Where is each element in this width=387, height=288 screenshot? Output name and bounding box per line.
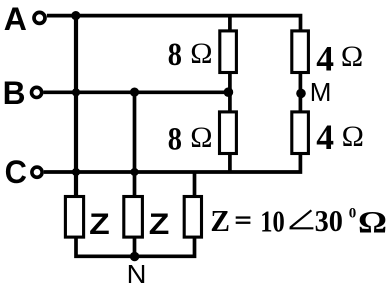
wire: phase A horizontal line with corner down to 4-ohm top bbox=[47, 16, 301, 30]
resistor R1: 8-ohm top box bbox=[220, 31, 237, 73]
wire: phase C horizontal line with corner up to 4-ohm bottom resistor R4 bbox=[44, 154, 301, 172]
svg-text:8: 8 bbox=[168, 37, 182, 73]
impedance Z1 box bbox=[65, 197, 83, 238]
equation: equals sign bottom bar bbox=[236, 222, 251, 224]
svg-text:B: B bbox=[3, 75, 26, 111]
svg-text:Z: Z bbox=[149, 208, 170, 241]
wire: Z2 bottom stub to neutral bus bbox=[133, 238, 137, 257]
equation: angle symbol bbox=[290, 210, 314, 228]
node: small crossing bump at B line / vertical 1 bbox=[72, 88, 80, 96]
terminal A: input circle bbox=[34, 12, 45, 23]
svg-text:4: 4 bbox=[316, 38, 334, 78]
wire: vertical from B junction down to Z2 bbox=[133, 92, 137, 196]
svg-text:Z: Z bbox=[210, 203, 230, 238]
svg-text:Ω: Ω bbox=[358, 204, 387, 239]
node: small crossing bump at C line / vertical 1 bbox=[72, 168, 80, 176]
terminal C: input circle bbox=[32, 167, 42, 177]
svg-text:10: 10 bbox=[260, 204, 285, 239]
svg-text:0: 0 bbox=[349, 205, 357, 221]
svg-text:4: 4 bbox=[316, 117, 334, 157]
resistor R4: 4-ohm bottom box bbox=[292, 112, 309, 154]
svg-text:Ω: Ω bbox=[341, 40, 363, 73]
wire: 8-ohm column bottom segment R3 to C line bbox=[228, 154, 232, 172]
impedance Z2 box bbox=[124, 197, 143, 238]
svg-text:Z: Z bbox=[89, 208, 110, 241]
wire: drop from A line to 8-ohm top resistor R1 bbox=[228, 16, 232, 31]
impedance Z3 box bbox=[184, 197, 201, 238]
svg-text:M: M bbox=[310, 77, 332, 107]
resistor R2: 4-ohm top box bbox=[292, 31, 309, 73]
svg-text:Ω: Ω bbox=[342, 120, 364, 153]
wire: neutral bus with corners up to Z1 and Z3 bottoms bbox=[76, 238, 195, 257]
node: junction dot on B line at Z2 vertical bbox=[130, 88, 139, 97]
svg-text:8: 8 bbox=[168, 122, 182, 158]
wire: 4-ohm column middle segment R2 bottom to R4 top bbox=[299, 73, 303, 112]
terminal B: input circle bbox=[31, 87, 41, 97]
svg-text:A: A bbox=[4, 1, 27, 37]
node: junction dot on A line bbox=[71, 11, 80, 20]
svg-text:N: N bbox=[127, 259, 147, 288]
node: junction dot between the two 8-ohm resistors (B connection) bbox=[224, 87, 234, 97]
equation: equals sign top bar bbox=[236, 216, 251, 218]
resistor R3: 8-ohm bottom box bbox=[220, 112, 237, 154]
wire: vertical from A junction down to Z1 bbox=[74, 14, 78, 196]
node M: junction dot between the two 4-ohm resistors bbox=[296, 89, 306, 99]
node N: neutral junction dot bbox=[130, 252, 139, 261]
svg-text:30: 30 bbox=[315, 203, 343, 238]
svg-text:Ω: Ω bbox=[190, 37, 212, 70]
svg-text:C: C bbox=[5, 154, 27, 190]
wire: phase B horizontal line bbox=[43, 90, 230, 94]
node: small crossing bump at C line / vertical 2 bbox=[130, 168, 138, 176]
wire: vertical from C line down to Z3 bbox=[193, 172, 197, 196]
svg-text:Ω: Ω bbox=[190, 121, 212, 154]
wire: 8-ohm column middle segment R1 bottom to R3 top bbox=[228, 73, 232, 112]
